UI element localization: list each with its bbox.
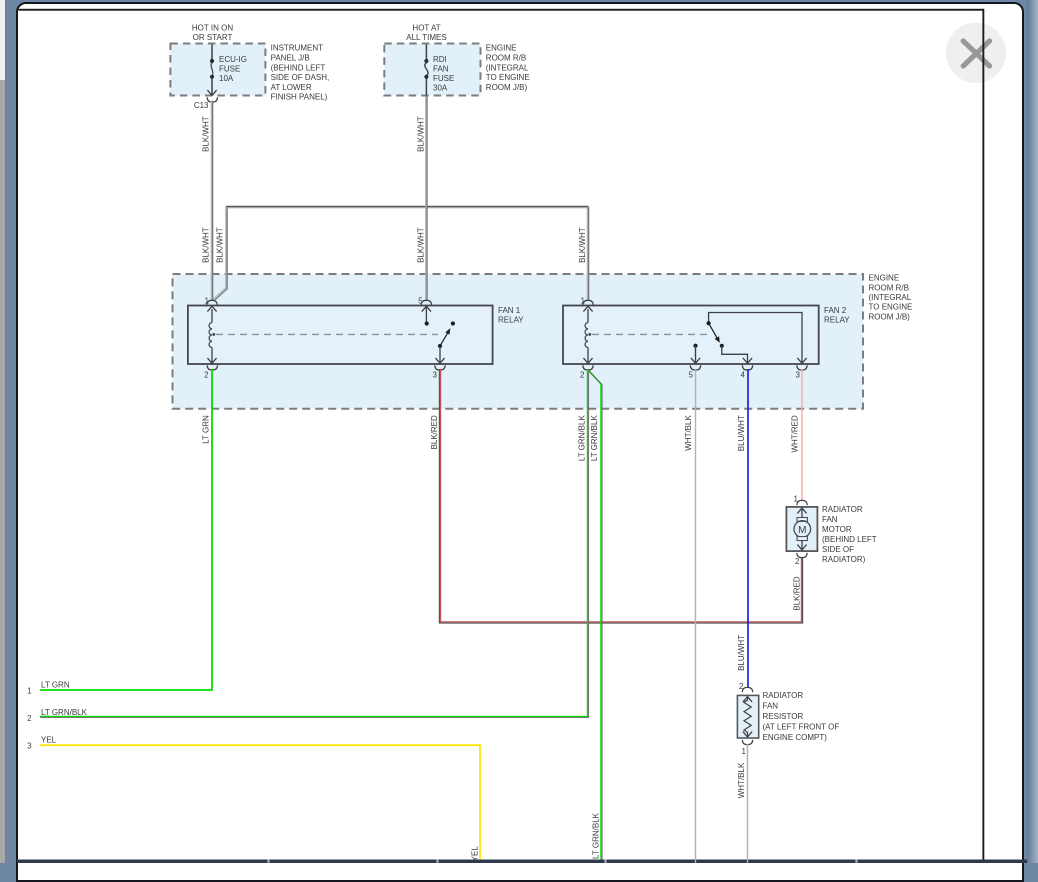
svg-text:WHT/RED: WHT/RED: [791, 415, 800, 453]
svg-text:PANEL J/B: PANEL J/B: [271, 54, 310, 63]
svg-text:FAN: FAN: [822, 515, 838, 524]
svg-text:(INTEGRAL: (INTEGRAL: [486, 63, 529, 72]
wire BLK/RED relay1 pin3 to motor pin2: [430, 369, 803, 623]
svg-text:BLK/WHT: BLK/WHT: [202, 227, 211, 263]
svg-text:3: 3: [796, 370, 801, 379]
terminal 1 LT GRN: [27, 681, 70, 696]
wire LT GRN relay1 pin2 to terminal 1: [40, 369, 212, 690]
wire BLK/WHT fuse1 to relay1 pin1: [202, 101, 213, 300]
svg-text:1: 1: [205, 296, 210, 305]
label engine room R/B fuse note: [486, 44, 530, 92]
svg-text:ENGINE: ENGINE: [869, 274, 900, 283]
svg-text:4: 4: [741, 370, 746, 379]
left divider line: [5, 0, 7, 863]
svg-text:SIDE OF DASH,: SIDE OF DASH,: [271, 73, 330, 82]
svg-text:ROOM R/B: ROOM R/B: [869, 283, 909, 292]
left scrollbar strip top: [0, 0, 5, 80]
svg-text:RADIATOR): RADIATOR): [822, 555, 866, 564]
svg-text:INSTRUMENT: INSTRUMENT: [271, 44, 324, 53]
relay K2 FAN 2 RELAY box: [563, 306, 850, 365]
svg-text:WHT/BLK: WHT/BLK: [737, 762, 746, 798]
relay K1 internal dashed link: [216, 333, 438, 335]
relay K1 FAN 1 RELAY box: [188, 306, 524, 365]
svg-text:LT GRN: LT GRN: [201, 415, 210, 444]
svg-text:M: M: [798, 525, 806, 536]
svg-text:(BEHIND LEFT: (BEHIND LEFT: [822, 535, 877, 544]
relay K1 coil: [207, 309, 216, 363]
svg-text:BLK/WHT: BLK/WHT: [416, 227, 425, 263]
relay K2 pin 3: [796, 365, 808, 379]
svg-text:2: 2: [795, 557, 800, 566]
engine room R/B dashed box: [173, 274, 864, 409]
svg-text:ROOM R/B: ROOM R/B: [486, 54, 526, 63]
svg-text:(AT LEFT FRONT OF: (AT LEFT FRONT OF: [763, 723, 840, 732]
svg-text:BLU/WHT: BLU/WHT: [737, 415, 746, 451]
wire BLK/WHT fuse2 to relay1 pin5: [416, 96, 427, 301]
svg-text:RADIATOR: RADIATOR: [822, 505, 863, 514]
terminal 2 LT GRN/BLK: [27, 708, 87, 723]
wire LT GRN/BLK relay2 pin2 to terminal 2: [40, 369, 589, 718]
relay K2 pin 4: [741, 365, 753, 379]
relay K2 pin 5 contact: [689, 344, 701, 380]
svg-text:5: 5: [418, 296, 423, 305]
svg-text:LT GRN/BLK: LT GRN/BLK: [41, 708, 88, 717]
wire LT GRN/BLK relay2 pin2 branch down: [587, 370, 602, 860]
left scrollbar strip bottom: [0, 80, 5, 863]
svg-text:1: 1: [742, 747, 747, 756]
svg-text:MOTOR: MOTOR: [822, 525, 852, 534]
svg-text:BLK/RED: BLK/RED: [792, 576, 801, 610]
label engine room R/B note: [869, 274, 913, 322]
svg-text:YEL: YEL: [471, 846, 480, 862]
svg-text:3: 3: [433, 370, 438, 379]
label radiator fan resistor note: [763, 691, 840, 742]
svg-text:C13: C13: [194, 101, 209, 110]
svg-text:YEL: YEL: [41, 736, 57, 745]
relay K1 pin 2: [204, 365, 217, 379]
svg-text:LT GRN: LT GRN: [41, 681, 70, 690]
svg-text:LT GRN/BLK: LT GRN/BLK: [577, 415, 586, 462]
diagram frame right line: [982, 9, 984, 860]
svg-text:LT GRN/BLK: LT GRN/BLK: [590, 415, 599, 462]
svg-text:TO ENGINE: TO ENGINE: [486, 73, 530, 82]
fuse F2 RDI FAN 30A: [424, 45, 454, 96]
motor M1 radiator fan motor: [786, 495, 817, 567]
svg-text:2: 2: [27, 714, 32, 723]
terminal 3 YEL wire: [27, 736, 480, 862]
svg-text:(BEHIND LEFT: (BEHIND LEFT: [271, 63, 326, 72]
label HOT AT ALL TIMES: [406, 23, 446, 42]
svg-text:HOT AT: HOT AT: [412, 23, 440, 32]
relay K1 pin 3: [433, 365, 446, 379]
svg-text:RDI: RDI: [433, 55, 447, 64]
wire BLU/WHT relay2 pin4 to resistor: [737, 369, 748, 688]
svg-text:FAN 2: FAN 2: [824, 306, 847, 315]
wire BLK/WHT branch to horizontal bus: [213, 207, 227, 300]
svg-text:2: 2: [204, 370, 209, 379]
svg-text:(INTEGRAL: (INTEGRAL: [869, 293, 912, 302]
relay K2 internal dashed link: [592, 333, 707, 335]
svg-text:2: 2: [580, 370, 585, 379]
wire WHT/RED relay2 pin3 to motor pin1: [791, 369, 803, 500]
svg-text:RELAY: RELAY: [824, 316, 850, 325]
svg-text:RELAY: RELAY: [498, 316, 524, 325]
relay K2 pin 2: [580, 365, 593, 379]
svg-text:BLK/WHT: BLK/WHT: [416, 116, 425, 152]
wire WHT/BLK resistor pin1 down: [737, 744, 748, 860]
svg-text:5: 5: [689, 370, 694, 379]
svg-text:BLK/WHT: BLK/WHT: [578, 227, 587, 263]
svg-text:1: 1: [27, 687, 32, 696]
svg-text:LT GRN/BLK: LT GRN/BLK: [591, 812, 600, 859]
svg-text:ENGINE COMPT): ENGINE COMPT): [763, 733, 828, 742]
svg-text:FAN: FAN: [433, 65, 449, 74]
relay K1 switch: [435, 321, 455, 363]
svg-text:OR START: OR START: [193, 33, 233, 42]
relay K2 coil: [583, 309, 592, 363]
connector C13: [194, 97, 218, 110]
wire WHT/BLK relay2 pin5 down: [684, 369, 696, 860]
svg-text:ECU-IG: ECU-IG: [219, 55, 247, 64]
relay K1 pin 1: [205, 296, 218, 311]
relay K2 switch: [707, 313, 807, 364]
svg-text:1: 1: [794, 495, 799, 504]
svg-text:10A: 10A: [219, 74, 234, 83]
svg-text:ALL TIMES: ALL TIMES: [406, 33, 446, 42]
svg-text:FUSE: FUSE: [433, 74, 454, 83]
svg-text:ROOM J/B): ROOM J/B): [869, 312, 911, 321]
svg-text:3: 3: [27, 742, 32, 751]
svg-text:BLU/WHT: BLU/WHT: [737, 635, 746, 671]
svg-text:RESISTOR: RESISTOR: [763, 712, 804, 721]
svg-text:ENGINE: ENGINE: [486, 44, 517, 53]
svg-text:30A: 30A: [433, 84, 448, 93]
label radiator fan motor note: [822, 505, 877, 564]
svg-text:BLK/RED: BLK/RED: [430, 415, 439, 449]
relay K1 pin 5 contact: [418, 296, 431, 325]
wire BLK/WHT horizontal bus: [226, 206, 589, 208]
svg-text:BLK/WHT: BLK/WHT: [202, 116, 211, 152]
wire BLK/WHT bus to relay2 pin1: [578, 207, 589, 301]
svg-text:FUSE: FUSE: [219, 65, 240, 74]
fuse F1 ECU-IG 10A: [207, 45, 247, 96]
svg-text:HOT IN ON: HOT IN ON: [192, 23, 233, 32]
svg-text:FAN 1: FAN 1: [498, 306, 521, 315]
label instrument panel note: [271, 44, 330, 102]
instrument panel J/B fuse box: [170, 44, 265, 96]
svg-text:TO ENGINE: TO ENGINE: [869, 303, 913, 312]
diagram frame bottom bar: [17, 860, 1027, 864]
svg-text:BLK/WHT: BLK/WHT: [215, 227, 224, 263]
resistor R1 radiator fan resistor: [737, 682, 758, 756]
svg-text:WHT/BLK: WHT/BLK: [684, 415, 693, 451]
svg-text:1: 1: [581, 296, 586, 305]
svg-text:FINISH PANEL): FINISH PANEL): [271, 93, 328, 102]
svg-text:AT LOWER: AT LOWER: [271, 83, 312, 92]
svg-text:RADIATOR: RADIATOR: [763, 691, 804, 700]
svg-text:ROOM J/B): ROOM J/B): [486, 83, 528, 92]
label HOT IN ON OR START: [192, 23, 233, 42]
close button: [946, 23, 1006, 83]
diagram frame top line: [19, 9, 985, 11]
relay K2 pin 1: [581, 296, 594, 311]
svg-text:SIDE OF: SIDE OF: [822, 545, 854, 554]
svg-text:FAN: FAN: [763, 702, 779, 711]
engine room R/B fuse box: [384, 44, 480, 96]
